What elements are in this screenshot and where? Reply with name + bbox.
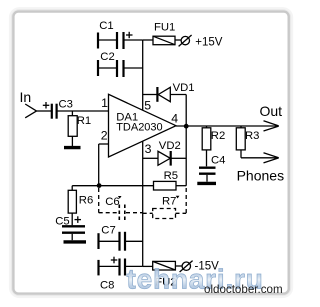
- svg-text:Phones: Phones: [237, 167, 284, 183]
- svg-text:C2: C2: [100, 51, 114, 63]
- svg-text:VD1: VD1: [173, 82, 195, 94]
- svg-text:2: 2: [101, 129, 108, 143]
- svg-text:C5: C5: [55, 215, 69, 227]
- svg-text:oldoctober.com: oldoctober.com: [204, 283, 283, 296]
- svg-text:R1: R1: [77, 115, 91, 127]
- svg-text:4: 4: [171, 112, 178, 126]
- svg-text:TDA2030: TDA2030: [116, 122, 162, 134]
- svg-text:R2: R2: [211, 130, 225, 142]
- svg-text:R5: R5: [164, 170, 178, 182]
- svg-text:In: In: [20, 89, 32, 105]
- svg-text:C6: C6: [105, 196, 119, 208]
- svg-text:R6: R6: [79, 194, 93, 206]
- svg-text:1: 1: [101, 96, 108, 110]
- svg-text:R7: R7: [162, 195, 176, 207]
- svg-text:C8: C8: [100, 280, 114, 292]
- svg-text:C3: C3: [59, 99, 73, 111]
- svg-text:R3: R3: [245, 130, 259, 142]
- svg-text:VD2: VD2: [159, 140, 181, 152]
- svg-text:C1: C1: [99, 20, 113, 32]
- svg-text:C7: C7: [101, 224, 115, 236]
- svg-text:C4: C4: [211, 155, 225, 167]
- svg-text:3: 3: [145, 142, 152, 156]
- svg-text:+15V: +15V: [195, 37, 223, 49]
- svg-text:FU1: FU1: [154, 22, 175, 34]
- svg-text:Out: Out: [260, 103, 283, 119]
- svg-text:5: 5: [144, 99, 151, 113]
